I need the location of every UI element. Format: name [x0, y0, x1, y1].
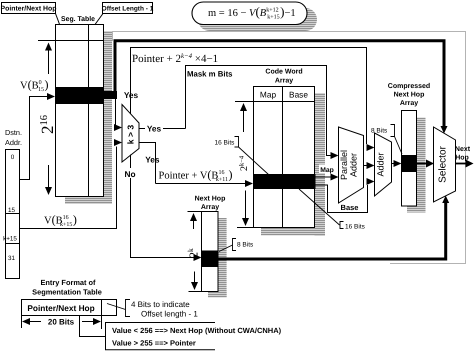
svg-text:Array: Array	[275, 78, 293, 85]
mux yes output 1 (to mask wire)	[139, 123, 186, 134]
svg-text:Pointer/Next Hop: Pointer/Next Hop	[27, 303, 94, 313]
svg-text:Array: Array	[201, 204, 219, 211]
svg-text:Segmentation Table: Segmentation Table	[32, 288, 102, 297]
svg-text:Next Hop: Next Hop	[195, 196, 226, 203]
selector output next hop	[455, 146, 474, 168]
CNHA output wire	[417, 160, 435, 168]
code word array black band	[253, 174, 316, 189]
next hop array	[202, 212, 227, 298]
next hop array black band	[202, 251, 219, 268]
map output wire	[315, 165, 338, 178]
svg-text:Selector: Selector	[438, 145, 449, 182]
svg-text:4 Bits to indicate: 4 Bits to indicate	[131, 300, 190, 309]
wire V(B15 0) into seg table	[20, 78, 55, 180]
svg-text:V(B015): V(B015)	[20, 78, 49, 94]
svg-text:Value < 256 ==> Next Hop (With: Value < 256 ==> Next Hop (Without CWA/CN…	[112, 326, 282, 335]
16 Bits label (top, with bracket)	[215, 137, 269, 175]
svg-text:Yes: Yes	[124, 90, 139, 100]
svg-text:Adder: Adder	[349, 153, 359, 177]
svg-text:Value > 255 ==> Pointer: Value > 255 ==> Pointer	[112, 339, 196, 348]
svg-text:Next: Next	[455, 146, 471, 153]
svg-text:Adder: Adder	[376, 152, 386, 176]
svg-text:0: 0	[11, 154, 15, 161]
svg-text:Base: Base	[341, 203, 359, 212]
svg-text:8 Bits: 8 Bits	[371, 128, 388, 135]
base output wire	[315, 182, 374, 213]
seg table black band	[55, 87, 117, 104]
svg-text:k > 3: k > 3	[126, 125, 136, 145]
16 Bits label (bottom, with bracket)	[299, 189, 366, 231]
compressed next hop array	[402, 111, 426, 213]
value rule box	[106, 323, 282, 350]
svg-text:Parallel: Parallel	[339, 150, 349, 180]
entry format box	[22, 300, 117, 316]
svg-text:Next Hop: Next Hop	[394, 92, 425, 99]
next hop array label	[195, 196, 226, 212]
parallel adder	[339, 127, 364, 203]
svg-text:Mask m Bits: Mask m Bits	[187, 70, 233, 79]
mux no output to NHA	[122, 155, 201, 258]
Dstn. Addr. box	[3, 128, 22, 279]
svg-text:k+15: k+15	[3, 236, 17, 243]
svg-text:Dstn.: Dstn.	[5, 128, 22, 137]
entry format heading	[32, 278, 102, 297]
2^(k-4) dimension	[235, 102, 253, 228]
formula box Pointer + V(B16 k+11)	[156, 166, 253, 184]
formula oval m = 16 - V(B) - 1	[192, 2, 317, 31]
svg-text:Yes: Yes	[147, 124, 162, 134]
svg-text:Map: Map	[260, 90, 277, 100]
20 bits dimension	[22, 316, 102, 330]
code word array table	[254, 87, 326, 237]
parallel adder output	[364, 165, 374, 167]
thick wire from seg table band to top rail and selector	[115, 41, 448, 134]
svg-text:Pointer + 2k−4 ×4−1: Pointer + 2k−4 ×4−1	[132, 53, 218, 65]
segmentation table	[56, 25, 113, 205]
compressed next hop array label	[388, 82, 430, 107]
label box Pointer/Next Hop (top-left)	[1, 3, 62, 32]
label box Offset Length - 1	[91, 3, 154, 31]
2^k dimension	[186, 212, 202, 292]
mux yes output 2 (to pointer+V box)	[139, 143, 160, 168]
svg-text:20 Bits: 20 Bits	[48, 318, 75, 327]
svg-text:16 Bits: 16 Bits	[345, 224, 366, 231]
selector	[434, 127, 456, 202]
wire V(B16 k+15) to mux	[20, 143, 122, 229]
thick wire NHA to selector (bottom rail)	[218, 196, 449, 260]
label Yes (above mux)	[122, 90, 141, 100]
svg-text:16 Bits: 16 Bits	[215, 140, 236, 147]
svg-text:Hop: Hop	[455, 155, 469, 162]
svg-text:Yes: Yes	[145, 155, 160, 165]
CNHA black band	[402, 155, 417, 172]
faint outer frame	[113, 32, 466, 264]
svg-text:Pointer + V(B16k+11): Pointer + V(B16k+11)	[159, 168, 233, 184]
wire to value box	[80, 316, 106, 337]
svg-text:Offset length - 1: Offset length - 1	[141, 310, 198, 319]
svg-text:Offset Length - 1: Offset Length - 1	[102, 6, 154, 13]
8 Bits label (NHA, with bracket)	[219, 239, 254, 252]
mux k > 3	[122, 105, 139, 163]
svg-text:Seg. Table: Seg. Table	[61, 16, 95, 23]
svg-text:Addr.: Addr.	[5, 138, 22, 147]
mask wire (yes path masked) into parallel adder	[186, 66, 338, 156]
svg-text:Array: Array	[400, 100, 418, 107]
formula box Pointer + 2^(k-4) x 4 - 1	[131, 48, 374, 148]
adder	[375, 133, 392, 196]
svg-text:Pointer/Next Hop: Pointer/Next Hop	[1, 6, 57, 13]
svg-text:Entry Format of: Entry Format of	[40, 278, 96, 287]
svg-text:V(B16k+15): V(B16k+15)	[44, 213, 77, 229]
4 bits label with bracket	[107, 300, 198, 319]
label Seg. Table	[61, 16, 95, 23]
svg-text:Map: Map	[320, 167, 334, 174]
svg-text:Base: Base	[289, 90, 308, 100]
svg-text:No: No	[124, 169, 135, 179]
2^16 dimension	[38, 41, 104, 195]
svg-text:31: 31	[8, 255, 16, 262]
8 Bits label (CNHA, with bracket)	[371, 125, 402, 155]
code word array label	[265, 68, 302, 85]
svg-text:15: 15	[8, 207, 16, 214]
svg-text:Compressed: Compressed	[388, 82, 430, 90]
wire seg band down to mux input 1	[116, 95, 122, 128]
svg-text:8 Bits: 8 Bits	[237, 242, 254, 249]
adder output	[392, 163, 401, 165]
svg-text:Code Word: Code Word	[265, 68, 302, 76]
